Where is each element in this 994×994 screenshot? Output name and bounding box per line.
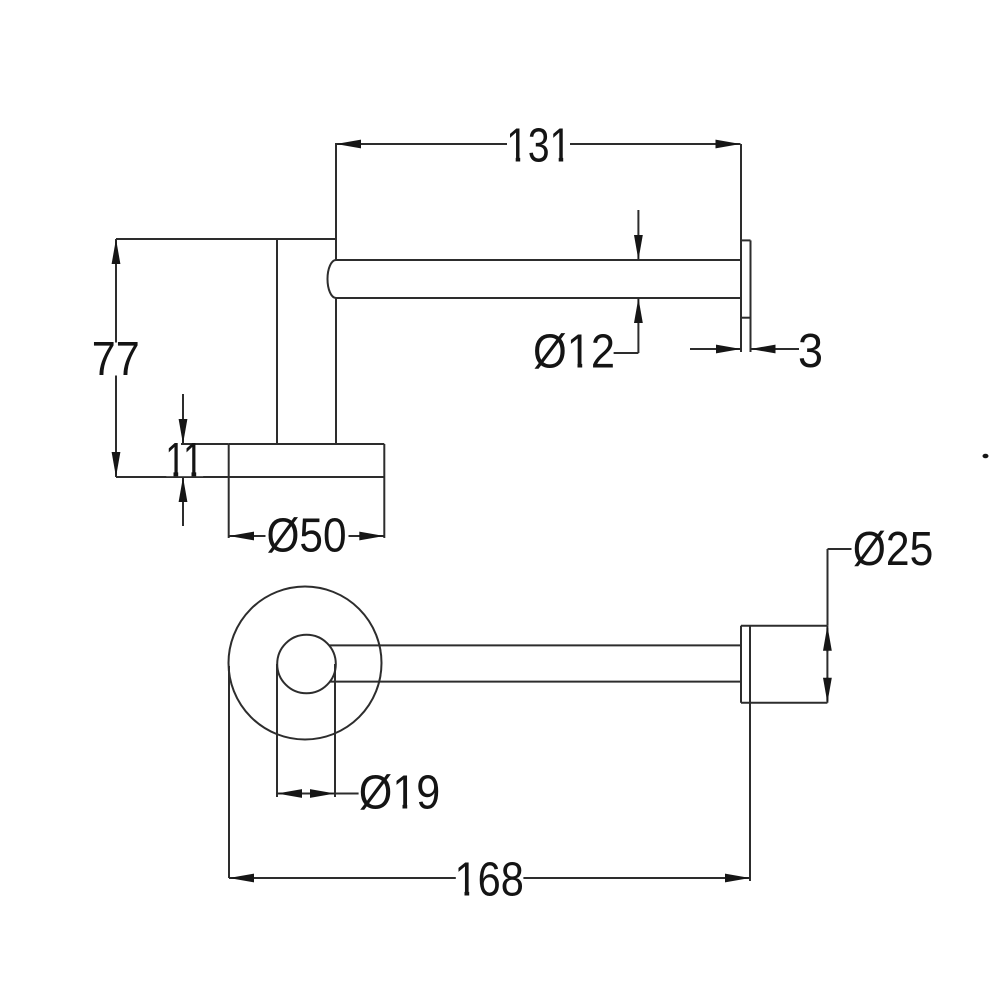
dim 11 upper arrow shaft: [182, 394, 184, 444]
bar bottom edge (plan view): [330, 681, 741, 683]
dim Ø19 left extension line: [276, 664, 278, 797]
end cap bottom edge: [741, 702, 827, 704]
dim Ø50 left arrowhead: [229, 532, 254, 541]
dim Ø25 down arrow shaft: [826, 677, 828, 701]
dim 131 line left segment: [336, 143, 507, 145]
svg-text:Ø50: Ø50: [267, 509, 347, 562]
dim Ø19 right extension line: [334, 664, 336, 797]
dim Ø50 right arrowhead: [359, 532, 384, 541]
dim 77 line lower segment: [115, 376, 117, 478]
dim Ø12 lower arrow shaft: [637, 298, 639, 353]
dim 77 line upper segment: [115, 239, 117, 343]
end cap top edge: [741, 625, 827, 627]
wall disc bottom edge: [741, 317, 751, 319]
dim Ø12 lower arrowhead (points up to bar bottom): [634, 298, 643, 323]
dim Ø19 line with tail: [277, 793, 359, 795]
dim 168 line right segment: [523, 877, 750, 879]
dim Ø50 line left segment: [229, 535, 266, 537]
ink speck: [983, 454, 989, 459]
end cap step line + dim 168 right extension: [749, 626, 751, 881]
dim 168 left extension line: [228, 666, 230, 878]
flange right edge: [383, 444, 385, 477]
post top edge + dim 77 top extension line: [116, 238, 336, 240]
dim 3 left arrowhead (points right at disc): [716, 345, 741, 354]
dim 168 left arrowhead: [229, 874, 254, 883]
dim 11 top extension line (flange top extended left): [181, 443, 229, 445]
end cap left edge (plan view): [740, 626, 742, 703]
svg-text:77: 77: [92, 333, 140, 386]
dim Ø25 leader horizontal: [828, 548, 852, 550]
dim Ø19 right arrowhead: [310, 789, 335, 798]
svg-text:131: 131: [506, 120, 571, 173]
dim 11 lower arrowhead (points up to flange bottom): [179, 477, 188, 502]
svg-text:Ø19: Ø19: [359, 767, 441, 820]
flange left edge: [228, 444, 230, 477]
dim Ø19 left arrowhead: [277, 789, 302, 798]
post left edge (side view, Ø19 stem): [276, 239, 278, 444]
flange Ø50 right extension line: [383, 477, 385, 538]
end cap right edge: [826, 626, 828, 703]
bar bottom edge (side view): [336, 297, 741, 299]
flange bottom edge + dim 77 bottom extension line: [116, 476, 384, 478]
dim 3 left line: [690, 348, 741, 350]
flange Ø50 left extension line: [228, 477, 230, 538]
dim Ø25 up arrow shaft: [826, 628, 828, 652]
wall disc right edge + extension down: [750, 240, 752, 352]
svg-text:Ø12: Ø12: [533, 325, 615, 378]
dim Ø12 upper arrow shaft: [637, 210, 639, 260]
dim Ø25 down arrowhead: [823, 678, 832, 703]
dim 131 right arrowhead: [716, 140, 741, 149]
dim 131 line right segment: [570, 143, 741, 145]
dim 11 upper arrowhead (points down to flange top): [179, 419, 188, 444]
svg-text:3: 3: [798, 325, 823, 378]
post right edge upper + extension line of dim 131: [335, 143, 337, 260]
dim 11 lower arrow shaft: [182, 477, 184, 526]
dim Ø25 leader vertical: [827, 549, 829, 626]
post circle (plan view, Ø19): [277, 635, 336, 694]
dim Ø50 line right segment: [349, 535, 385, 537]
bar top edge (plan view): [329, 644, 741, 646]
dim Ø25 up arrowhead: [823, 626, 832, 651]
flange circle (plan view, Ø50): [229, 587, 382, 740]
dim 168 line left segment: [229, 877, 456, 879]
wall disc left edge + extension line of dim 131 right: [740, 144, 742, 352]
dim 77 bottom arrowhead: [112, 452, 121, 477]
flange top edge (side view): [229, 443, 385, 445]
dim 3 right line: [751, 348, 800, 350]
dim Ø12 upper arrowhead (points down to bar top): [634, 235, 643, 260]
dim 131 left arrowhead: [336, 140, 361, 149]
dim Ø12 leader horizontal: [614, 352, 639, 354]
svg-text:Ø25: Ø25: [853, 523, 934, 576]
svg-text:11: 11: [165, 434, 203, 487]
dim 77 top arrowhead: [112, 239, 121, 264]
svg-text:168: 168: [455, 853, 524, 906]
dim 168 right arrowhead: [725, 874, 750, 883]
wall disc top edge: [741, 239, 751, 241]
dim 3 right arrowhead (points left at disc): [751, 345, 776, 354]
bar top edge (side view): [336, 259, 741, 261]
post right edge lower: [335, 298, 337, 444]
bar left rounded cap arc: [328, 260, 337, 298]
